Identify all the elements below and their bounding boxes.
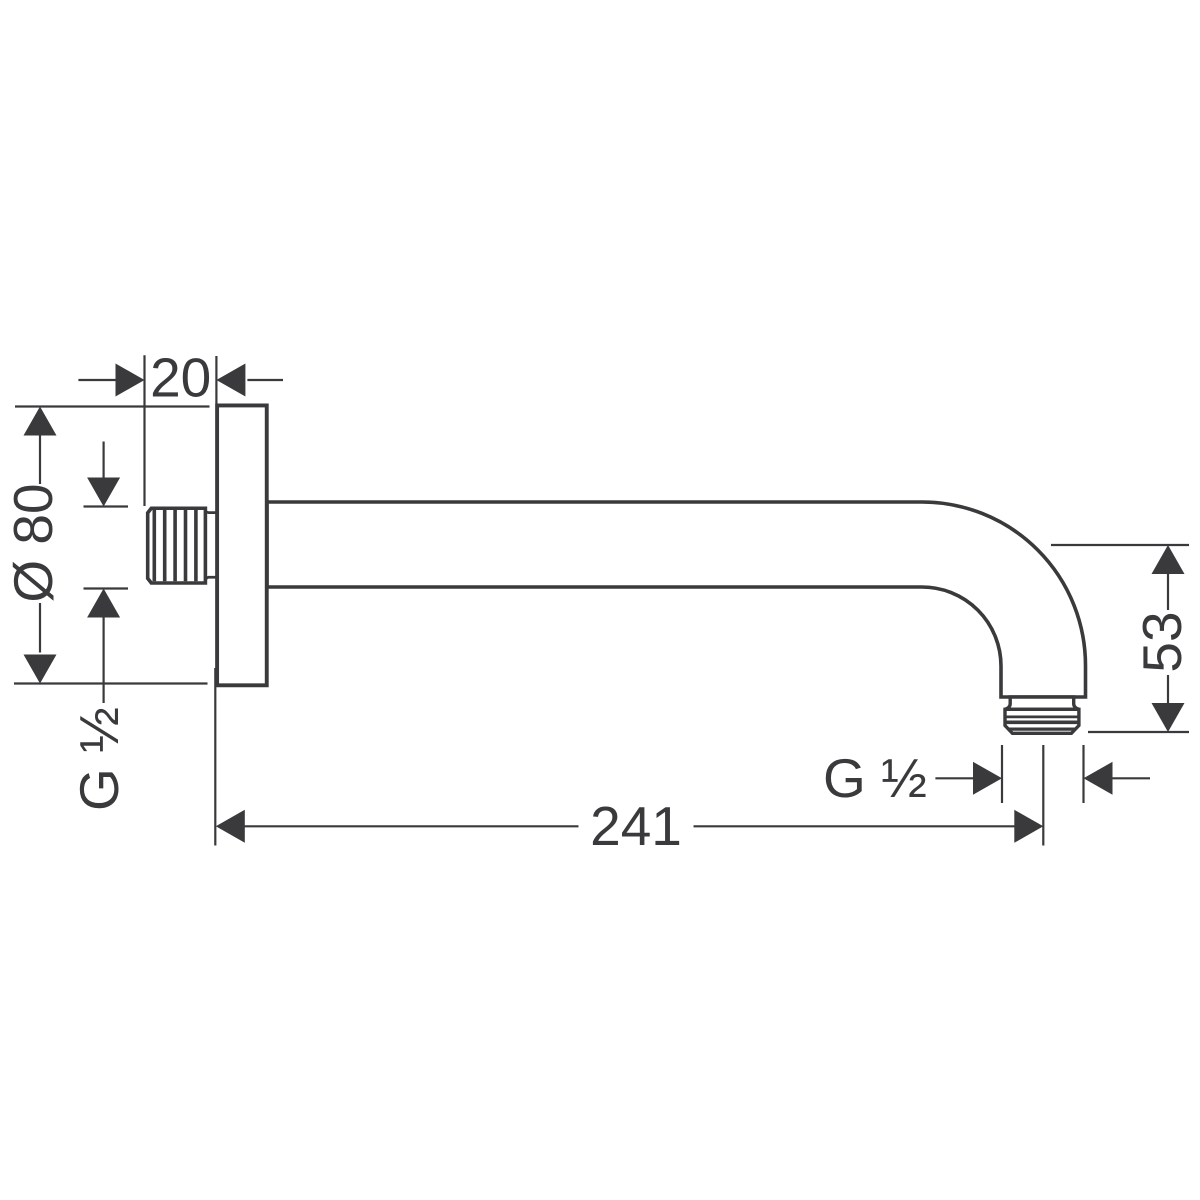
svg-text:53: 53 [1131, 611, 1193, 672]
svg-text:20: 20 [150, 346, 211, 408]
outlet thread tip [1005, 709, 1079, 733]
dimension 20 (top) [78, 355, 283, 506]
svg-text:241: 241 [590, 795, 682, 857]
wall plate [217, 405, 267, 685]
outlet neck [1005, 697, 1079, 709]
dimension 241 (bottom) [215, 668, 1043, 846]
shower arm pipe body [267, 502, 1086, 697]
dimension G1/2 (left connector) [84, 442, 129, 704]
svg-text:G ½: G ½ [823, 747, 927, 809]
dimension 53 (right) [1051, 545, 1189, 732]
wall connector thread [148, 508, 217, 583]
svg-text:Ø 80: Ø 80 [2, 483, 64, 602]
svg-text:G ½: G ½ [68, 707, 130, 811]
dimension G1/2 (bottom right) [935, 745, 1150, 803]
dimension Ø80 (left) [14, 407, 210, 684]
